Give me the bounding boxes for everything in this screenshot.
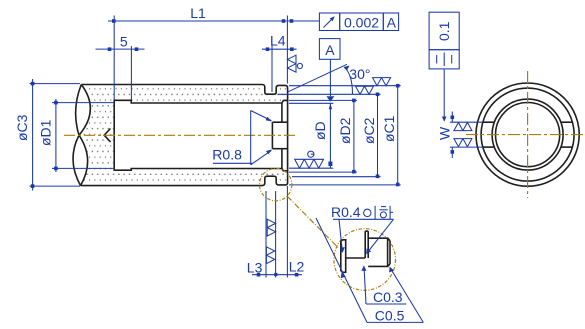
svg-text:5: 5: [120, 33, 128, 49]
svg-text:øC3: øC3: [14, 114, 30, 141]
svg-text:0.002: 0.002: [344, 14, 379, 30]
svg-text:øD: øD: [312, 121, 328, 140]
dimension dia C3: [14, 79, 80, 191]
svg-text:øC1: øC1: [381, 115, 397, 142]
part section silhouette (stippled): [73, 85, 288, 186]
on groove wall ext lines (rotated): [267, 219, 275, 236]
detail view circle: [334, 229, 396, 291]
svg-text:30°: 30°: [349, 66, 370, 82]
part outline: [81, 85, 288, 186]
svg-text:W: W: [437, 126, 453, 140]
end view centerlines: [466, 134, 585, 136]
bore void: [131, 103, 282, 169]
connector line to detail view: [287, 196, 338, 247]
runout feature control frame: [319, 13, 398, 31]
on end face ext line (rotated, with G circle): [287, 55, 296, 72]
svg-text:L1: L1: [190, 5, 206, 21]
dimensions L3 L2: [247, 186, 305, 278]
svg-text:øC2: øC2: [361, 117, 377, 144]
internal groove void: [114, 100, 131, 170]
svg-text:0.1: 0.1: [436, 21, 452, 41]
leader R0.8: [212, 111, 272, 165]
break lens upper (white): [76, 85, 91, 136]
datum A box: [319, 39, 340, 102]
dimension dia D2: [337, 99, 356, 174]
center drill mark: [104, 129, 110, 142]
svg-text:øD1: øD1: [38, 119, 54, 146]
svg-text:L2: L2: [289, 258, 305, 274]
end view circles: [476, 83, 579, 186]
svg-text:C0.5: C0.5: [375, 308, 405, 324]
hangul 'ha': [381, 206, 386, 208]
keyway slot void: [272, 122, 287, 149]
dimension L4: [262, 32, 297, 92]
symmetry tolerance frame: [429, 12, 459, 122]
internal lines right end: [272, 100, 287, 170]
svg-text:L4: L4: [270, 32, 286, 48]
dimension dia C2: [361, 93, 379, 179]
keyway slots: [483, 122, 572, 147]
svg-text:L3: L3: [247, 260, 263, 276]
dimension dia D: [312, 103, 332, 168]
break lens lower (white): [73, 135, 88, 185]
centerline: [64, 134, 296, 136]
on C1 ext line: [373, 78, 391, 86]
dimension 5: [96, 33, 145, 99]
svg-text:øD2: øD2: [337, 117, 353, 144]
W dimension: [437, 112, 483, 159]
30 degree angle: [288, 64, 370, 94]
surface finish symbols: [266, 55, 390, 263]
detail circle on part: [260, 168, 292, 200]
svg-text:C0.3: C0.3: [373, 289, 403, 305]
dimension L1: [108, 5, 319, 100]
break line curves: [73, 85, 81, 186]
keyway surface marks: [454, 123, 472, 147]
detail view geometry: [341, 231, 390, 272]
svg-text:A: A: [325, 42, 335, 58]
right end counterbore void: [282, 100, 288, 171]
right side extension lines: [278, 86, 401, 185]
hangul 'i': [364, 209, 371, 216]
on bore bottom ext line (3 triangles + G): [295, 159, 324, 168]
on C2 ext line: [356, 86, 374, 94]
svg-text:R0.4: R0.4: [331, 204, 361, 220]
detail labels: [316, 204, 423, 324]
dimension dia D1: [38, 99, 115, 172]
dimension dia C1: [381, 84, 400, 186]
svg-text:A: A: [387, 14, 397, 30]
svg-text:R0.8: R0.8: [212, 147, 242, 163]
